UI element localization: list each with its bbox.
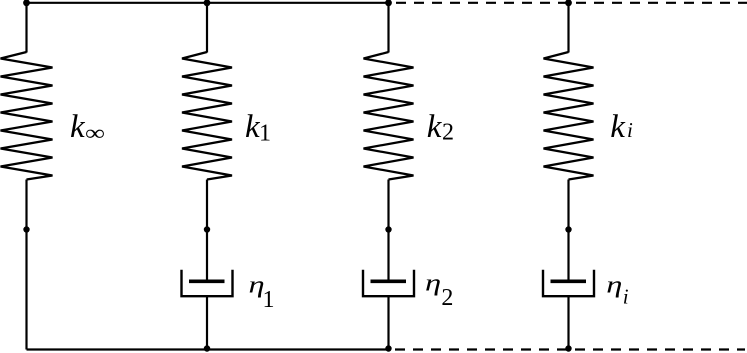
wire branch3 top lead	[387, 3, 389, 53]
spring k1	[182, 52, 232, 180]
wire branch3 below dashpot	[387, 296, 389, 349]
svg-text:1: 1	[263, 287, 275, 313]
dashpot eta2 piston plate	[371, 279, 407, 283]
top bar dashed	[396, 2, 747, 4]
svg-text:1: 1	[259, 120, 271, 146]
node dot branch2 mid	[204, 226, 210, 232]
node dot branch2 top	[204, 0, 211, 6]
spring k-inf	[1, 52, 53, 180]
svg-text:k: k	[427, 109, 443, 145]
node dot branch1 top	[23, 0, 30, 6]
node dot branch4 top	[565, 0, 572, 6]
svg-text:i: i	[627, 118, 633, 142]
spring ki	[544, 52, 594, 180]
svg-text:k: k	[610, 109, 626, 145]
wire branch1 lower	[25, 180, 27, 350]
svg-text:∞: ∞	[85, 122, 105, 145]
svg-text:η: η	[425, 269, 441, 296]
bottom bar dashed	[395, 348, 745, 350]
dashpot eta-i cup	[543, 270, 594, 296]
wire branch1 top lead	[25, 3, 27, 53]
node dot branch3 top	[385, 0, 392, 6]
svg-text:k: k	[70, 109, 86, 145]
node dot branch3 mid	[385, 226, 391, 232]
svg-text:i: i	[623, 284, 629, 308]
svg-text:2: 2	[442, 119, 454, 145]
dashpot eta-i piston plate	[551, 279, 587, 283]
node dot branch4 mid	[565, 226, 571, 232]
wire branch4 spring-to-dashpot	[567, 180, 569, 282]
wire branch3 spring-to-dashpot	[387, 180, 389, 282]
spring k2	[364, 52, 414, 180]
dashpot eta1 piston plate	[189, 279, 225, 283]
wire branch2 top lead	[206, 3, 208, 53]
top bar solid	[27, 2, 391, 4]
node dot branch1 mid	[23, 226, 29, 232]
wire branch4 below dashpot	[567, 296, 569, 349]
node dot branch3 bottom	[385, 345, 391, 351]
wire branch2 spring-to-dashpot	[206, 180, 208, 282]
node dot branch2 bottom	[204, 345, 210, 351]
bottom bar solid	[27, 348, 391, 350]
dashpot eta2 cup	[363, 270, 414, 296]
wire branch4 top lead	[567, 3, 569, 53]
node dot branch4 bottom	[565, 345, 571, 351]
svg-text:η: η	[606, 271, 622, 298]
dashpot eta1 cup	[182, 270, 233, 296]
wire branch2 below dashpot	[206, 296, 208, 349]
svg-text:2: 2	[441, 285, 453, 311]
